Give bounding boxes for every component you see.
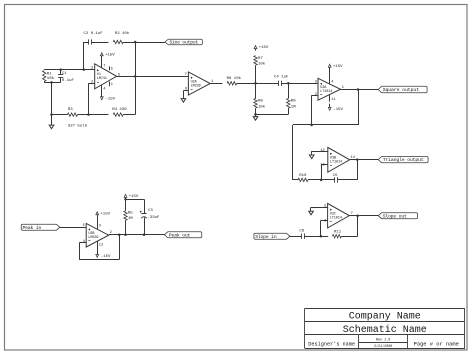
svg-text:LM339: LM339 — [191, 84, 201, 88]
wire — [341, 89, 379, 91]
svg-text:4: 4 — [83, 240, 85, 244]
node — [320, 235, 323, 238]
svg-text:+15V: +15V — [259, 46, 269, 50]
wire — [126, 199, 145, 201]
flag Sine output — [165, 39, 202, 45]
svg-text:C1: C1 — [62, 72, 67, 76]
wire — [293, 124, 358, 126]
svg-text:10k: 10k — [258, 61, 266, 66]
op-amp U2B — [83, 223, 112, 247]
wire — [292, 125, 294, 180]
title block — [305, 309, 466, 350]
pin 7 +15V — [100, 53, 115, 69]
svg-text:R3: R3 — [68, 108, 73, 112]
svg-text:2/21/2000: 2/21/2000 — [374, 344, 392, 349]
wire — [89, 83, 95, 85]
wire — [210, 83, 222, 85]
svg-text:1: 1 — [111, 83, 113, 87]
svg-text:5: 5 — [111, 68, 113, 72]
svg-text:Page # or name: Page # or name — [414, 341, 459, 347]
flag Peak out — [164, 232, 201, 239]
svg-text:12: 12 — [99, 243, 103, 247]
svg-text:3: 3 — [91, 67, 93, 71]
resistor R1 — [43, 71, 55, 83]
svg-text:R8: R8 — [258, 100, 263, 104]
node — [134, 41, 137, 44]
svg-text:+15V: +15V — [333, 65, 343, 69]
svg-text:LM339: LM339 — [88, 236, 98, 240]
resistor R11 — [321, 230, 342, 238]
node — [134, 75, 137, 78]
svg-text:R7: R7 — [258, 57, 263, 61]
resistor R9 — [287, 83, 297, 114]
ground — [309, 210, 314, 215]
flag Triangle output — [378, 157, 428, 164]
svg-text:Sine output: Sine output — [169, 40, 198, 46]
svg-text:Company Name: Company Name — [349, 312, 421, 323]
svg-text:LM741: LM741 — [97, 77, 107, 81]
resistor R2 — [113, 31, 130, 44]
node — [50, 113, 53, 116]
node — [254, 82, 257, 85]
svg-text:Square output: Square output — [383, 87, 419, 93]
pin 5 — [110, 66, 113, 71]
svg-text:.33uF: .33uF — [147, 216, 160, 220]
op-amp U1 — [91, 64, 120, 89]
capacitor C6 — [299, 230, 304, 239]
node — [50, 81, 53, 84]
capacitor C4 — [274, 76, 289, 86]
wire — [44, 69, 94, 71]
svg-text:C2 0.1uF: C2 0.1uF — [84, 32, 104, 36]
pin 1 — [110, 82, 113, 88]
node — [143, 234, 146, 237]
wire — [51, 82, 53, 114]
wire — [357, 160, 359, 180]
wire — [88, 83, 90, 114]
wire — [281, 83, 318, 85]
svg-text:LT1014: LT1014 — [330, 217, 342, 221]
flag Peak in — [21, 224, 60, 231]
capacitor C5 — [333, 174, 338, 183]
wire — [60, 227, 86, 229]
op-amp U2A — [185, 72, 214, 95]
wire — [304, 236, 321, 238]
wire — [109, 234, 165, 236]
flag Slope out — [378, 213, 417, 220]
op-amp U3B — [320, 147, 355, 172]
wire — [52, 114, 68, 116]
ground — [253, 114, 258, 120]
node — [287, 82, 290, 85]
pin 12 -15V — [96, 241, 111, 259]
wire — [350, 159, 379, 161]
flag Slope in — [254, 233, 290, 240]
node — [320, 179, 323, 182]
svg-text:Slope out: Slope out — [383, 213, 407, 219]
svg-text:C4 1uF: C4 1uF — [274, 76, 289, 80]
svg-text:LT1014: LT1014 — [320, 90, 332, 94]
wire — [293, 179, 298, 181]
wire — [341, 216, 357, 237]
svg-text:R11: R11 — [334, 230, 342, 234]
svg-text:R10: R10 — [299, 174, 307, 178]
node — [59, 68, 62, 71]
wire — [91, 42, 108, 44]
svg-text:-15V: -15V — [333, 108, 343, 112]
svg-text:R2 10k: R2 10k — [115, 31, 130, 36]
node — [124, 234, 127, 237]
wire — [135, 42, 137, 76]
capacitor C2 — [84, 32, 104, 44]
wire — [237, 83, 279, 85]
svg-text:R5: R5 — [128, 211, 133, 215]
pin 3 +15V — [96, 212, 111, 229]
resistor R10 — [298, 174, 308, 182]
svg-text:Rev 1.0: Rev 1.0 — [376, 338, 390, 342]
svg-text:6: 6 — [324, 220, 326, 224]
svg-text:C5: C5 — [333, 174, 338, 178]
svg-text:Slope in: Slope in — [255, 234, 277, 240]
pin 4 -15V — [100, 85, 115, 102]
wire — [308, 179, 335, 181]
svg-text:7: 7 — [185, 73, 187, 77]
wire — [321, 164, 328, 166]
node — [118, 234, 121, 237]
node — [310, 124, 313, 127]
svg-text:+15V: +15V — [129, 195, 139, 199]
svg-text:C6: C6 — [299, 230, 304, 234]
op-amp U3A — [315, 78, 344, 100]
svg-text:5: 5 — [83, 224, 85, 228]
resistor R5 — [124, 199, 134, 235]
wire — [311, 207, 328, 210]
svg-text:+15V: +15V — [105, 53, 115, 57]
svg-text:5: 5 — [324, 205, 326, 209]
svg-text:10k: 10k — [258, 104, 266, 109]
node — [124, 198, 127, 201]
wire — [358, 90, 360, 126]
wire — [123, 42, 165, 44]
svg-text:+15V: +15V — [100, 212, 110, 216]
svg-text:3: 3 — [99, 224, 101, 228]
svg-text:R6 10k: R6 10k — [227, 76, 242, 81]
node — [356, 214, 359, 217]
power +15V — [124, 194, 139, 199]
node — [357, 88, 360, 91]
op-amp U3C — [324, 203, 353, 228]
svg-text:1M: 1M — [128, 217, 133, 221]
flag Square output — [378, 86, 427, 93]
wire — [312, 151, 328, 154]
svg-text:1M: 1M — [291, 105, 296, 109]
svg-text:-15V: -15V — [105, 97, 115, 101]
svg-text:-15V: -15V — [101, 255, 111, 259]
wire — [312, 95, 318, 97]
resistor R6 — [227, 76, 242, 85]
node — [87, 113, 90, 116]
svg-text:R1: R1 — [47, 73, 52, 77]
svg-text:4: 4 — [103, 87, 105, 91]
svg-text:Peak out: Peak out — [169, 232, 191, 238]
node — [356, 158, 359, 161]
wire — [83, 42, 85, 70]
svg-text:7: 7 — [103, 65, 105, 69]
svg-text:2: 2 — [315, 93, 317, 97]
wire — [321, 164, 323, 180]
wire — [123, 76, 135, 114]
svg-text:4: 4 — [331, 80, 333, 84]
svg-text:R4 430: R4 430 — [112, 108, 127, 112]
svg-text:Designer's name: Designer's name — [308, 341, 355, 347]
wire — [290, 236, 301, 238]
pin 11 -15V — [328, 95, 343, 113]
svg-text:11: 11 — [331, 98, 335, 102]
wire — [321, 220, 328, 236]
power +15V — [254, 46, 269, 51]
ground — [309, 154, 314, 159]
svg-text:C3: C3 — [148, 209, 153, 213]
capacitor C3 — [140, 199, 160, 235]
wire — [183, 91, 188, 98]
svg-text:0.1uF: 0.1uF — [62, 79, 75, 83]
svg-text:Triangle output: Triangle output — [383, 157, 424, 163]
wire — [349, 215, 378, 217]
svg-text:Schematic Name: Schematic Name — [343, 324, 427, 336]
svg-text:R9: R9 — [291, 100, 296, 104]
wire — [117, 76, 189, 78]
wire — [338, 179, 357, 181]
wire — [311, 95, 313, 125]
node — [254, 113, 257, 116]
svg-text:Peak in: Peak in — [23, 225, 42, 231]
wire — [79, 235, 119, 260]
resistor R4 — [112, 108, 127, 116]
svg-text:10k: 10k — [47, 76, 55, 81]
wire — [44, 82, 61, 84]
ground — [49, 115, 54, 129]
wire — [256, 114, 289, 116]
svg-text:3: 3 — [315, 81, 317, 85]
svg-text:LT1014: LT1014 — [330, 161, 342, 165]
pin 4 +15V — [328, 64, 343, 84]
resistor R8 — [254, 83, 266, 114]
node — [83, 68, 86, 71]
svg-text:327 bulb: 327 bulb — [68, 123, 88, 128]
resistor R3 — [68, 108, 88, 128]
wire — [78, 114, 109, 116]
ground — [181, 97, 186, 102]
capacitor C1 — [58, 70, 74, 84]
resistor R7 — [254, 49, 266, 84]
